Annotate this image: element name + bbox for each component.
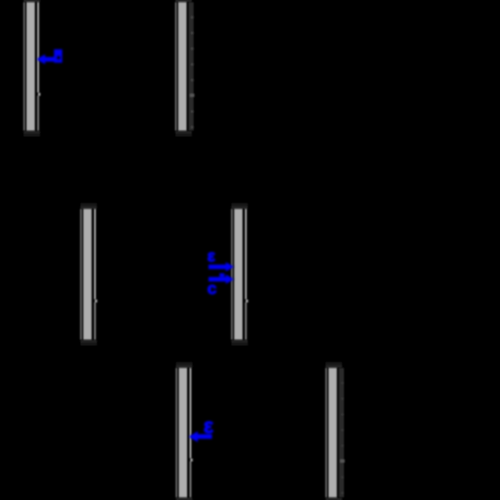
svg-text:ε: ε (207, 247, 215, 266)
svg-text:c: c (207, 279, 216, 298)
